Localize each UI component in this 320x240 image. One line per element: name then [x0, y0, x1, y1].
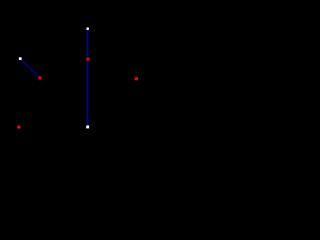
- node: white square marker top-left: [19, 57, 22, 60]
- node: red dot end of diagonal: [38, 76, 41, 79]
- node: red square marker on vertical line: [87, 58, 90, 61]
- wire: diagonal trajectory line: [20, 59, 40, 78]
- node: white square marker bottom of vertical line: [86, 126, 89, 129]
- node: white square marker top of vertical line: [87, 28, 89, 30]
- node: red dot right side: [135, 77, 138, 80]
- wire: vertical trajectory line: [87, 29, 89, 127]
- node: red dot bottom-left: [17, 125, 20, 128]
